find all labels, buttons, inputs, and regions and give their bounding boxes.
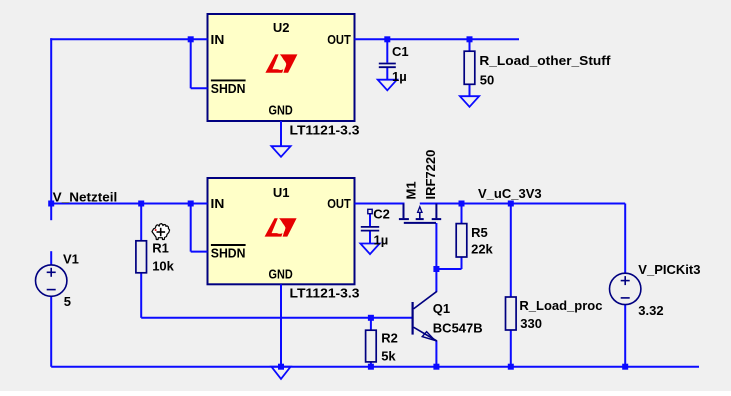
svg-text:IN: IN [211, 196, 225, 211]
svg-text:IN: IN [211, 32, 225, 47]
svg-text:LT1121-3.3: LT1121-3.3 [290, 286, 360, 301]
svg-text:V_Netzteil: V_Netzteil [53, 190, 118, 205]
svg-text:1µ: 1µ [374, 232, 389, 247]
svg-text:3.32: 3.32 [638, 303, 663, 318]
svg-text:5: 5 [64, 294, 71, 309]
svg-text:U1: U1 [273, 185, 290, 200]
svg-text:Q1: Q1 [433, 301, 450, 316]
svg-text:R_Load_proc: R_Load_proc [519, 298, 602, 313]
svg-text:BC547B: BC547B [433, 320, 483, 335]
svg-text:C2: C2 [373, 206, 390, 221]
svg-text:C1: C1 [392, 44, 409, 59]
svg-text:R_Load_other_Stuff: R_Load_other_Stuff [479, 53, 611, 68]
svg-text:R5: R5 [471, 225, 488, 240]
svg-text:OUT: OUT [327, 32, 351, 47]
svg-text:V1: V1 [63, 252, 79, 267]
svg-text:10k: 10k [152, 259, 174, 274]
svg-text:SHDN: SHDN [211, 81, 246, 96]
svg-text:V_uC_3V3: V_uC_3V3 [478, 186, 542, 201]
svg-text:GND: GND [269, 103, 293, 118]
svg-text:22k: 22k [471, 241, 493, 256]
svg-text:OUT: OUT [327, 196, 351, 211]
svg-text:50: 50 [480, 72, 494, 87]
svg-text:U2: U2 [273, 20, 290, 35]
svg-text:330: 330 [520, 316, 542, 331]
svg-text:5k: 5k [381, 349, 396, 364]
svg-text:M1: M1 [404, 181, 419, 199]
svg-text:LT1121-3.3: LT1121-3.3 [290, 122, 360, 137]
svg-text:1µ: 1µ [392, 69, 407, 84]
svg-text:GND: GND [269, 267, 293, 282]
svg-text:IRF7220: IRF7220 [423, 150, 438, 200]
svg-text:R2: R2 [381, 330, 398, 345]
svg-text:R1: R1 [152, 241, 169, 256]
svg-text:SHDN: SHDN [211, 245, 246, 260]
svg-text:V_PICKit3: V_PICKit3 [638, 262, 700, 277]
